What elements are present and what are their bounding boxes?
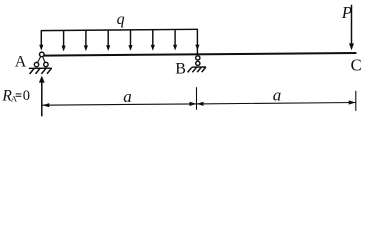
svg-text:B: B xyxy=(175,60,186,77)
svg-text:P: P xyxy=(341,3,352,22)
svg-text:a: a xyxy=(123,87,132,106)
svg-text:A: A xyxy=(11,93,18,103)
svg-text:A: A xyxy=(15,53,27,70)
svg-text:q: q xyxy=(117,11,125,28)
svg-text:a: a xyxy=(273,86,282,105)
svg-text:C: C xyxy=(351,55,362,74)
svg-text:0: 0 xyxy=(23,88,30,104)
